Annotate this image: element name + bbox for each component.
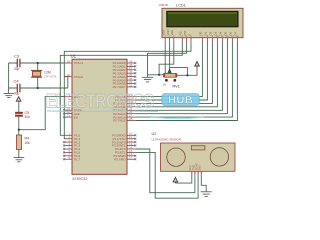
wire: LCD D5 to P2.5 — [135, 41, 227, 113]
pin stubs right — [127, 63, 135, 159]
svg-text:GND: GND — [199, 165, 202, 171]
node VEE drop — [158, 74, 160, 76]
unconnected crosses left — [63, 109, 65, 160]
ground (sensor) — [201, 192, 212, 197]
svg-text:EA: EA — [74, 115, 78, 119]
svg-text:LM016L: LM016L — [159, 3, 170, 7]
svg-text:AT89C51: AT89C51 — [72, 177, 87, 181]
ground (LCD VSS / pot) — [142, 75, 153, 82]
svg-text:1k: 1k — [163, 83, 167, 87]
wiper arrow — [168, 68, 171, 74]
wire: LCD VEE to ground jog — [159, 41, 174, 75]
svg-text:R4: R4 — [25, 137, 30, 141]
LCD pin labels (vertical) — [162, 29, 238, 35]
wire: LCD RW to ground — [148, 41, 187, 75]
wire: LCD RS to P1.0 — [60, 41, 182, 135]
ground (crystal rail) — [3, 88, 14, 98]
wire: LCD D0 to P2.0 — [135, 41, 202, 96]
svg-text:P2.7/A15: P2.7/A15 — [113, 119, 126, 123]
capacitor C3 — [14, 54, 20, 71]
wire: pot right to power — [176, 65, 197, 75]
wire: reset node to R4 — [18, 130, 20, 135]
wire: LCD VDD to wiper node and power drop — [170, 41, 188, 75]
wire: C5 to reset node — [18, 117, 20, 130]
pin labels left inside chip — [74, 61, 83, 161]
wire: XTAL1 rail — [9, 62, 65, 64]
node crystal top — [37, 62, 39, 64]
mcu U1 body — [71, 54, 128, 181]
svg-text:XTAL1: XTAL1 — [74, 61, 83, 65]
wire: XTAL2 bottom rail — [9, 87, 68, 89]
svg-text:31: 31 — [67, 114, 71, 118]
svg-text:CRYSTAL: CRYSTAL — [44, 75, 57, 79]
wire: LCD D3 to P2.3 — [135, 41, 217, 107]
svg-text:U1: U1 — [71, 54, 77, 59]
svg-text:10k: 10k — [25, 141, 31, 145]
svg-text:P1.7: P1.7 — [74, 157, 81, 161]
wire: LCD D4 to P2.4 — [135, 41, 222, 110]
svg-text:18: 18 — [67, 73, 71, 77]
wire: crystal top stub — [37, 63, 39, 70]
svg-text:ULTRASONIC SENSOR: ULTRASONIC SENSOR — [152, 137, 181, 141]
svg-text:ELECTRONICS: ELECTRONICS — [46, 90, 154, 112]
pin stubs left (connected) — [64, 63, 72, 139]
pin stubs left (unconnected) — [64, 110, 72, 159]
wire: LCD D2 to P2.2 — [135, 41, 212, 103]
ultrasonic sensor U2 — [152, 132, 236, 171]
svg-text:33p: 33p — [14, 91, 20, 95]
svg-text:33p: 33p — [14, 67, 20, 71]
pin labels right inside chip — [112, 61, 126, 161]
node crystal bottom — [37, 87, 39, 89]
power arrow (pot VCC) — [195, 62, 200, 67]
lcd LCD1 LM016L — [159, 3, 243, 38]
pin numbers right — [129, 59, 133, 159]
wire: power to C5 — [18, 101, 20, 112]
resistor R4 — [16, 135, 30, 150]
wire: crystal left rail — [8, 63, 10, 88]
wire: ground rail to pot left — [148, 74, 165, 76]
node reset junction — [18, 129, 20, 131]
watermark ElectronicsHub logo — [46, 90, 204, 118]
svg-text:RV1: RV1 — [173, 85, 180, 89]
crystal X1 12MHz — [31, 70, 57, 78]
svg-text:P0.7/AD7: P0.7/AD7 — [113, 85, 126, 89]
wire: LCD D7 to P2.7 — [135, 41, 237, 120]
node pot right — [186, 74, 188, 76]
sensor pin stubs — [192, 171, 202, 174]
wire: LCD E to P1.1 — [64, 41, 191, 138]
wires net — [9, 41, 238, 198]
svg-text:C3: C3 — [14, 54, 20, 59]
svg-text:28: 28 — [129, 117, 133, 121]
LCD pin stubs — [165, 38, 237, 42]
wire: LCD VSS down — [164, 41, 166, 75]
capacitor C4 — [14, 79, 20, 96]
wire: R4 to ground — [18, 150, 20, 158]
wire: LCD D1 to P2.1 — [135, 41, 207, 100]
svg-text:C4: C4 — [14, 79, 20, 84]
wire: P3.4 to sensor TRIG — [135, 149, 195, 193]
svg-text:17: 17 — [129, 156, 133, 160]
svg-text:10u: 10u — [25, 115, 31, 119]
wire: RST net — [19, 97, 65, 130]
ground (below R4) — [14, 158, 25, 162]
capacitor C5 (electrolytic) — [15, 111, 30, 119]
unconnected crosses right P0 and P3 — [134, 62, 136, 160]
wire: sensor GND — [201, 174, 206, 191]
sensor pin labels (vertical) — [189, 163, 202, 170]
svg-text:HUB: HUB — [168, 95, 193, 107]
svg-text:19: 19 — [67, 59, 71, 63]
svg-text:P3.7/RD: P3.7/RD — [114, 157, 126, 161]
svg-text:XTAL2: XTAL2 — [74, 75, 83, 79]
svg-text:U2: U2 — [152, 132, 157, 136]
wire: LCD D6 to P2.6 — [135, 41, 232, 117]
potentiometer RV1 — [163, 68, 180, 89]
power arrow (sensor VCC) — [173, 177, 178, 183]
node VSS/pot ground — [164, 74, 166, 76]
LCD pin numbers — [165, 35, 240, 38]
wire: crystal bottom stub — [37, 77, 39, 88]
wire: sensor VCC to power — [175, 174, 191, 183]
svg-text:LCD1: LCD1 — [176, 3, 186, 7]
pin numbers left — [67, 59, 71, 159]
power arrow (reset VCC) — [16, 97, 21, 102]
wire: XTAL2 jog up — [65, 77, 68, 88]
wire: P3.5 to sensor ECHO — [135, 152, 198, 198]
svg-text:32: 32 — [129, 83, 133, 87]
